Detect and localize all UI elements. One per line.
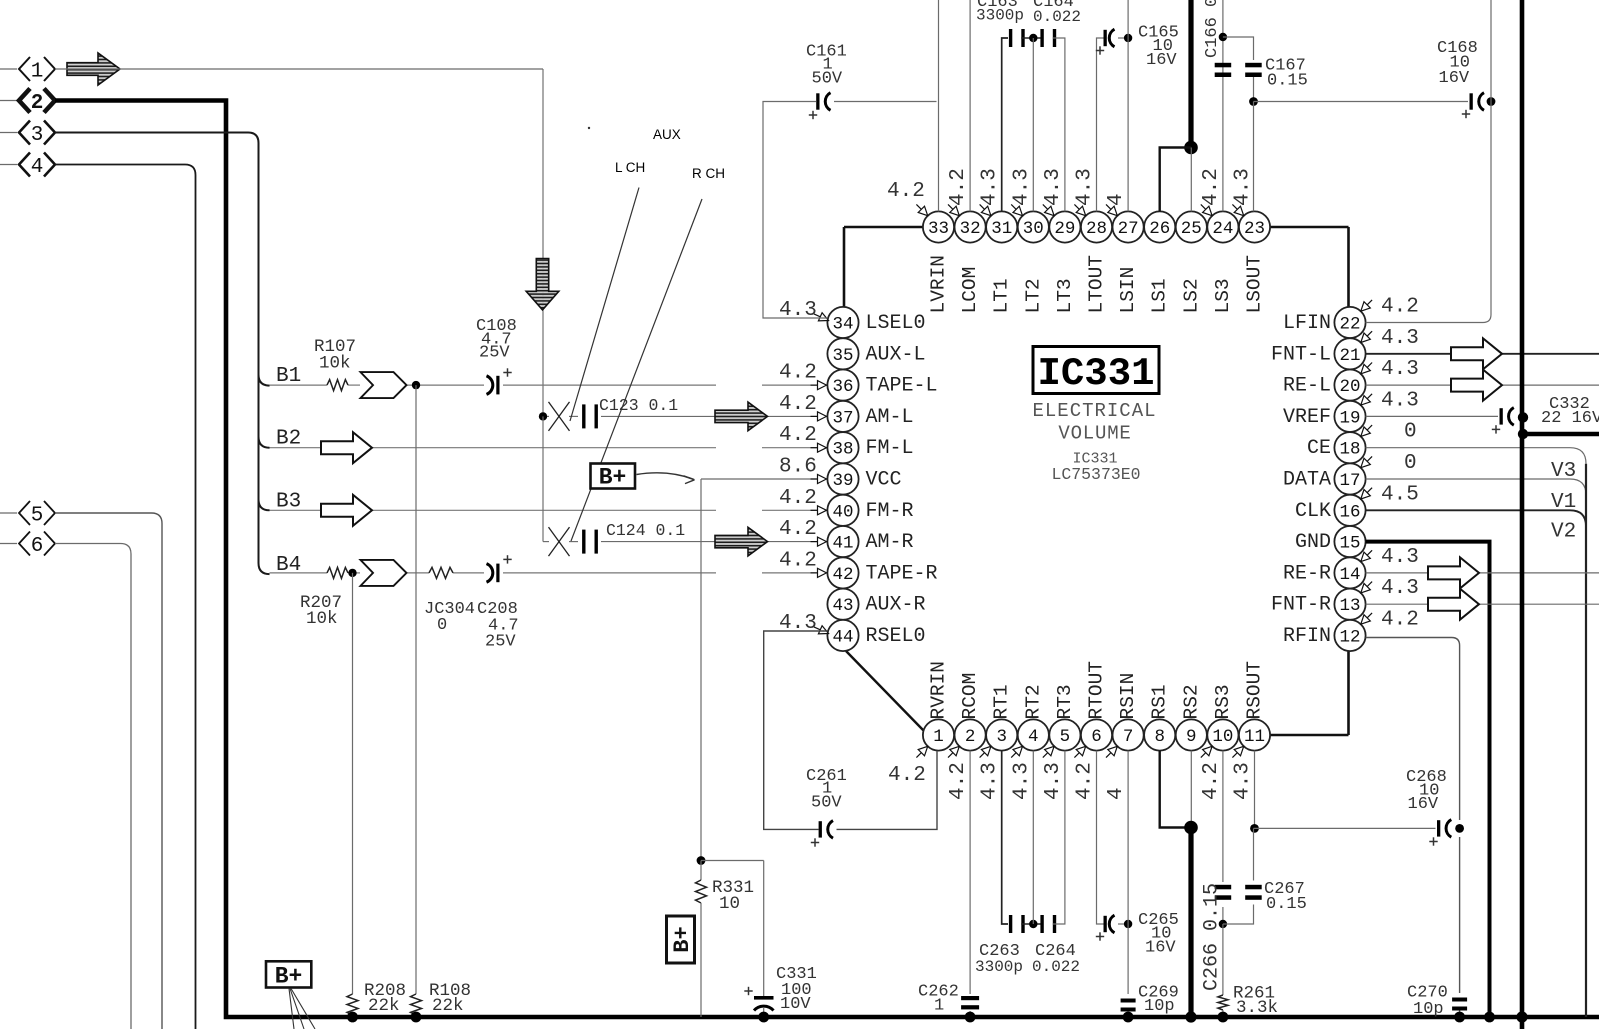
wire to C168 [1254,101,1469,103]
net vertical V-bus [1585,464,1587,1017]
svg-text:35: 35 [832,346,853,366]
pin 31 (LT1) [979,168,1018,313]
pin 18 (CE) [1307,421,1417,464]
pin 35 (AUX-L) [827,338,925,369]
svg-text:27: 27 [1118,219,1139,239]
pin 10 (RS3) [1200,684,1239,800]
svg-text:4.2: 4.2 [1381,296,1419,319]
svg-text:4.2: 4.2 [947,762,970,800]
svg-text:RCOM: RCOM [959,673,981,720]
svg-text:5: 5 [1060,727,1071,747]
junction C332/supply [1518,412,1528,422]
svg-text:4.2: 4.2 [779,424,817,447]
capacitor C266 [1201,883,1232,991]
wire FNT-R [1366,603,1599,605]
svg-text:29: 29 [1054,219,1075,239]
svg-text:1: 1 [933,727,944,747]
svg-text:FM-R: FM-R [866,500,914,523]
svg-text:4.3: 4.3 [1381,327,1419,350]
svg-text:B+: B+ [599,465,627,491]
svg-text:38: 38 [832,440,853,460]
svg-text:1: 1 [934,997,944,1016]
svg-text:4: 4 [31,156,44,179]
svg-text:10k: 10k [319,354,351,374]
svg-text:19: 19 [1339,408,1360,428]
junction C269/ground bus [1123,1012,1134,1023]
wire VREF [1366,415,1498,417]
svg-text:C124 0.1: C124 0.1 [606,521,685,540]
pin 16 (CLK) [1295,483,1419,526]
svg-text:16V: 16V [1439,69,1470,88]
svg-text:4.3: 4.3 [1010,762,1033,800]
svg-text:39: 39 [832,471,853,491]
wire pin3 to C263 [1002,751,1008,924]
wire pin28 to C165 [1097,38,1104,211]
wire AM-R line [543,541,828,543]
capacitor C263 [975,915,1025,976]
svg-text:AUX-R: AUX-R [866,594,926,617]
svg-text:VOLUME: VOLUME [1058,423,1131,445]
svg-text:4.2: 4.2 [779,487,817,510]
wire C267 to pin10 line [1223,905,1254,925]
svg-text:3300p: 3300p [975,958,1023,976]
svg-text:4.2: 4.2 [779,549,817,572]
svg-text:0.15: 0.15 [1267,72,1308,91]
svg-text:LCOM: LCOM [959,267,981,314]
svg-text:4.3: 4.3 [1042,168,1065,206]
pin 27 (LSIN) [1105,193,1144,313]
svg-text:4: 4 [1028,727,1039,747]
thick supply line top [1188,0,1193,148]
wire connector3 bus with B1-B4 taps [55,133,270,575]
svg-text:4.2: 4.2 [947,168,970,206]
svg-text:4.3: 4.3 [979,168,1002,206]
resistor R207 [300,567,348,629]
svg-text:VREF: VREF [1283,406,1331,429]
capacitor C165 [1096,24,1179,71]
svg-text:44: 44 [832,628,853,648]
resistor R208 [347,981,406,1016]
svg-text:22k: 22k [368,996,400,1016]
junction pin24/C167 branch [1219,33,1227,41]
B+ fan pointer lines [289,989,315,1029]
connector <1> [0,57,55,84]
wire pin11 vert to C267 [1253,828,1255,880]
pin 13 (FNT-R) [1271,577,1419,620]
wire C263-C264 [1021,923,1040,925]
pin 32 (LCOM) [947,168,986,313]
svg-text:4.2: 4.2 [779,362,817,385]
thick wire GND [1366,542,1490,1017]
svg-text:0.022: 0.022 [1033,8,1081,26]
capacitor C208 [477,555,519,651]
svg-text:3: 3 [996,727,1007,747]
wire C164 to pin29 [1053,38,1065,211]
label V3 [1551,460,1576,483]
wire pin2 down [969,751,971,994]
svg-text:LSOUT: LSOUT [1244,255,1266,314]
arrow on B1 [361,372,407,398]
svg-text:TAPE-L: TAPE-L [866,375,938,398]
svg-text:LS2: LS2 [1180,278,1202,313]
junction supply/ground bus [1185,1011,1196,1022]
svg-text:7: 7 [1123,727,1134,747]
wire pin11 right branch [1254,827,1436,829]
arrow on B2 [321,432,372,463]
hatched arrow into pin37 [715,402,768,431]
svg-text:RSIN: RSIN [1117,673,1139,720]
pin 14 (RE-R) [1283,546,1419,589]
block arrow FNT-L [1451,338,1502,369]
svg-text:4.2: 4.2 [1200,762,1223,800]
svg-text:1: 1 [31,61,44,84]
wire pin32 up [969,0,971,211]
wire B1 [270,384,828,386]
label IC331 small [1072,451,1117,468]
arrow on B3 [321,495,372,526]
svg-text:16V: 16V [1146,51,1177,70]
pin 11 (RSOUT) [1232,661,1271,800]
wire CE to V3 [1366,448,1586,464]
junction supply/thick-out [1518,429,1528,439]
capacitor C332 [1492,395,1599,434]
connector <5> [0,501,55,528]
connector <6> [0,532,55,559]
pin 44 (RSEL0) [779,612,926,651]
svg-text:37: 37 [832,408,853,428]
wire C161 loop left to pin34 [763,102,828,319]
pin 8 (RS1) [1144,684,1175,750]
label VOLUME [1058,423,1131,445]
svg-text:2: 2 [965,727,976,747]
svg-text:9: 9 [1186,727,1197,747]
svg-text:TAPE-R: TAPE-R [866,562,938,585]
svg-text:V3: V3 [1551,460,1576,483]
hatched arrow from connector 1 [67,53,120,85]
wire RE-R [1366,572,1599,574]
pin 19 (VREF) [1283,389,1419,432]
svg-text:16: 16 [1339,502,1360,522]
junction C167/C168 line [1249,97,1258,106]
pin 17 (DATA) [1283,452,1417,495]
svg-text:RTOUT: RTOUT [1086,661,1108,720]
svg-text:31: 31 [991,219,1012,239]
junction thick-vertical/ground bus [1516,1011,1527,1022]
pin 7 (RSIN) [1105,673,1144,800]
wire pin31 to C163 [1002,38,1008,211]
svg-text:0.022: 0.022 [1032,958,1080,976]
annotation line to L CH [570,188,639,422]
svg-text:VCC: VCC [866,469,902,492]
svg-text:C166 0: C166 0 [1203,0,1222,58]
junction pin4/caps [1029,920,1037,928]
svg-text:LVRIN: LVRIN [928,255,950,314]
capacitor C168 [1437,39,1484,118]
svg-text:RS3: RS3 [1212,684,1234,719]
svg-text:GND: GND [1295,531,1331,554]
svg-text:FNT-L: FNT-L [1271,343,1331,366]
svg-text:RSEL0: RSEL0 [866,625,926,648]
svg-text:33: 33 [928,219,949,239]
wire pin27 up [1127,0,1129,211]
svg-text:16V: 16V [1408,795,1439,814]
wire CLK to V2 [1366,510,1586,526]
svg-text:FM-L: FM-L [866,437,914,460]
svg-text:6: 6 [31,535,44,558]
svg-text:8.6: 8.6 [779,456,817,479]
pin 5 (RT3) [1042,684,1081,800]
svg-text:50V: 50V [811,794,842,813]
svg-text:43: 43 [832,596,853,616]
svg-text:LT1: LT1 [991,278,1013,313]
wire pin8 L-branch [1160,751,1191,828]
capacitor C268 [1406,768,1451,846]
label V2 [1551,521,1576,544]
label L CH [615,160,645,175]
wire LFIN horizontal [1366,322,1483,324]
B+ flag (bottom left) [266,961,311,989]
svg-text:30: 30 [1023,219,1044,239]
svg-text:RT1: RT1 [991,684,1013,719]
IC331 outline top-left [844,227,923,307]
pin 4 (RT2) [1010,684,1049,800]
svg-text:25: 25 [1181,219,1202,239]
IC331 outline bottom-right [1270,651,1348,735]
X mark on C123 line [549,402,570,431]
wire connector1 to down-arrow node [55,69,543,418]
svg-text:22: 22 [1339,315,1360,335]
svg-text:3: 3 [31,124,44,147]
svg-text:FNT-R: FNT-R [1271,594,1331,617]
svg-text:10V: 10V [780,995,811,1014]
svg-text:4.3: 4.3 [1074,168,1097,206]
svg-text:4: 4 [1105,193,1128,206]
pin 24 (LS3) [1200,168,1239,313]
wire B2 [270,447,828,449]
resistor R107 [314,337,356,391]
svg-text:RT3: RT3 [1054,684,1076,719]
svg-text:4.3: 4.3 [1381,577,1419,600]
svg-text:V2: V2 [1551,521,1576,544]
wire pin10 to R261 [1222,924,1224,995]
pin 21 (FNT-L) [1271,327,1419,370]
svg-text:10: 10 [1212,727,1233,747]
svg-text:40: 40 [832,502,853,522]
curved arrow B+ to VCC [637,473,695,484]
thick main vertical right [1520,0,1525,1029]
svg-text:C266 0.15: C266 0.15 [1201,883,1224,991]
svg-text:26: 26 [1149,219,1170,239]
capacitor C269 [1121,984,1179,1017]
wire connector5 [55,513,162,1029]
wire DATA to V1 [1366,479,1586,495]
junction C268/RFIN line [1455,824,1464,833]
svg-text:C123 0.1: C123 0.1 [599,396,678,415]
junction pin11 branch [1250,824,1259,833]
resistor R108 [411,981,472,1016]
wire pin7 down [1127,751,1129,994]
block arrow RE-L [1451,370,1502,401]
junction R108/ground bus [411,1012,422,1023]
svg-text:0: 0 [437,616,447,635]
pin 6 (RTOUT) [1074,661,1113,800]
wire pin33 up [938,0,940,211]
annotation dot [588,127,590,129]
IC331 title box [1033,347,1159,397]
svg-text:23: 23 [1244,219,1265,239]
label B1 [276,365,301,388]
wire pin11 down [1254,751,1256,829]
pin 23 (LSOUT) [1232,168,1271,313]
label 8.6 [779,456,817,479]
pin 2 (RCOM) [947,673,986,800]
wire pin30 up [1032,38,1034,211]
wire FNT-L [1366,353,1599,355]
svg-text:6: 6 [1091,727,1102,747]
pin 40 (FM-R) [779,487,914,526]
svg-text:CLK: CLK [1295,500,1331,523]
svg-text:4.3: 4.3 [1232,762,1255,800]
wire C167 branch [1223,37,1254,102]
wire C270 to bus [1459,1011,1461,1018]
svg-text:AUX: AUX [653,127,681,142]
svg-text:20: 20 [1339,377,1360,397]
svg-text:4.3: 4.3 [1042,762,1065,800]
svg-text:12: 12 [1339,628,1360,648]
junction node C123 [539,412,547,420]
svg-text:13: 13 [1339,596,1360,616]
label R CH [692,166,725,181]
svg-text:0: 0 [1404,452,1417,475]
svg-text:JC304: JC304 [424,600,475,619]
wire node to C124 [542,416,544,541]
svg-text:RS1: RS1 [1149,684,1171,719]
wire R108 [415,385,417,1017]
wire B+ vertical to R331 [700,479,702,861]
svg-text:4.3: 4.3 [1381,546,1419,569]
capacitor C331 [744,965,817,1017]
label AUX [653,127,681,142]
pin 29 (LT3) [1042,168,1081,313]
svg-text:4.3: 4.3 [1381,389,1419,412]
pin 30 (LT2) [1010,168,1049,313]
svg-text:4.2: 4.2 [888,764,926,787]
svg-text:LC75373E0: LC75373E0 [1051,465,1140,484]
svg-text:11: 11 [1244,727,1265,747]
svg-text:2: 2 [31,92,44,115]
pin 12 (RFIN) [1283,609,1419,652]
svg-text:RVRIN: RVRIN [928,661,950,720]
pin 20 (RE-L) [1283,358,1419,401]
svg-text:LS1: LS1 [1149,278,1171,313]
capacitor C123 [582,396,678,428]
connector <2> [0,89,55,116]
X mark on C124 line [549,527,570,556]
svg-text:RT2: RT2 [1022,684,1044,719]
svg-text:IC331: IC331 [1037,352,1154,396]
junction C262/ground bus [965,1012,976,1023]
junction R331 top [697,856,706,865]
pin 42 (TAPE-R) [779,549,938,588]
pin 37 (AM-L) [779,393,914,432]
thick wire out right [1523,432,1599,437]
B+ flag (vertical) [667,916,696,963]
wire C261 loop right to pin1 [837,751,938,830]
label 4.2 at pin 1 [888,746,928,787]
svg-text:AM-L: AM-L [866,406,914,429]
svg-text:4.2: 4.2 [1200,168,1223,206]
svg-text:LFIN: LFIN [1283,312,1331,335]
svg-text:50V: 50V [812,70,843,89]
connector <4> [0,153,55,180]
svg-text:LS3: LS3 [1212,278,1234,313]
svg-text:4.2: 4.2 [1074,762,1097,800]
pin 34 (LSEL0) [779,299,926,338]
label ELECTRICAL [1032,400,1156,422]
junction B1/R108 [412,381,420,389]
junction pin30/caps [1029,34,1037,42]
capacitor C164 [1033,0,1081,47]
svg-text:B+: B+ [275,964,303,990]
wire C269 to bus [1127,1012,1129,1017]
svg-text:10p: 10p [1413,1000,1444,1019]
wire C264 to pin5 [1053,751,1065,924]
svg-text:17: 17 [1339,471,1360,491]
svg-text:4.3: 4.3 [1010,168,1033,206]
B+ flag (VCC) [591,464,636,491]
svg-text:3300p: 3300p [976,7,1024,25]
junction pin10/C267 bottom [1219,920,1227,928]
label 4.2 at pin 33 [887,180,928,216]
wire B3 [270,509,828,511]
wire pin6 to C265 [1097,751,1104,924]
svg-text:RSOUT: RSOUT [1244,661,1266,720]
wire C161 loop right to pin33 [834,101,937,103]
wire RFIN [1366,638,1460,994]
pin 22 (LFIN) [1283,296,1419,339]
junction GND/ground bus [1484,1012,1495,1023]
junction C265/pin7 [1124,920,1132,928]
svg-text:22k: 22k [432,996,464,1016]
svg-text:5: 5 [31,505,44,528]
svg-text:CE: CE [1307,437,1331,460]
svg-text:RE-R: RE-R [1283,562,1331,585]
wire B4 [270,572,828,574]
svg-text:RE-L: RE-L [1283,375,1331,398]
junction C331/ground bus [758,1012,769,1023]
annotation line to R CH [571,199,702,541]
capacitor C265 [1096,911,1179,958]
pin 38 (FM-L) [779,424,914,463]
power-entry down arrow [526,259,559,310]
svg-text:AUX-L: AUX-L [866,343,926,366]
wire C261 loop left to pin44 [764,631,828,829]
wire R331 branch [701,861,764,997]
junction pin8-9 supply [1184,821,1198,835]
wire VCC [701,478,828,480]
wire pin25 [1190,148,1192,212]
svg-text:RS2: RS2 [1180,684,1202,719]
hatched arrow into pin41 [715,527,768,556]
resistor R331 [696,861,755,1018]
wire R208 [352,573,354,1017]
wire pin4 down [1032,751,1034,924]
svg-text:14: 14 [1339,565,1360,585]
wire pin10 down [1222,751,1224,924]
svg-text:4.2: 4.2 [887,180,925,203]
pin 26 (LS1) [1144,211,1175,313]
svg-text:25V: 25V [479,344,510,363]
